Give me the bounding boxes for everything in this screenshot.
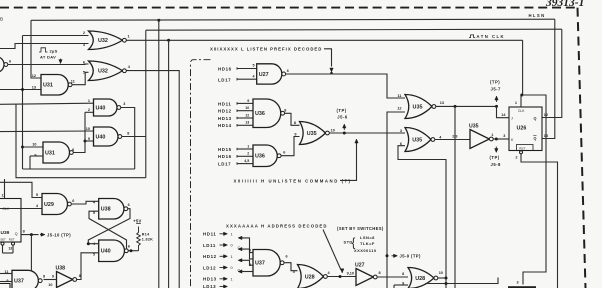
nand U33 (partial, cut at left edge) (0, 57, 4, 73)
svg-text:3: 3 (249, 263, 251, 267)
or-gate U35 pins 8,9 out 10 (NOR) (300, 122, 326, 145)
or-gate U35 pins 3,6 out 4 (NOR) (405, 128, 431, 152)
wire U26-Q net: y=30 run (146, 29, 562, 30)
wire U31-11 output to U32 pin5 (72, 72, 88, 84)
nand U38 pins 4,5 out 6 (latch top) (99, 199, 124, 220)
wire U37-6 to U28 input (284, 263, 297, 271)
svg-text:Q: Q (534, 137, 537, 141)
svg-text:9: 9 (34, 153, 36, 157)
svg-text:LD12: LD12 (203, 265, 216, 270)
wire U40 latch output node (128, 250, 138, 252)
svg-text:8: 8 (43, 274, 45, 278)
wire into U40 pin9 (85, 140, 94, 142)
svg-text:HD16: HD16 (218, 154, 232, 159)
svg-text:8: 8 (72, 148, 74, 152)
svg-text:(TP): (TP) (337, 108, 347, 113)
svg-text:5: 5 (249, 249, 251, 253)
svg-text:U36: U36 (255, 154, 265, 160)
section bracket dash-dot vertical (191, 60, 211, 288)
svg-text:+5V: +5V (133, 219, 141, 224)
svg-text:2,3: 2,3 (452, 134, 457, 138)
svg-text:8: 8 (402, 272, 404, 276)
resistor R14 1.82K (137, 227, 141, 251)
svg-text:1: 1 (88, 99, 90, 103)
svg-text:5: 5 (293, 270, 295, 274)
svg-text:LD17: LD17 (218, 162, 231, 167)
svg-text:13: 13 (8, 246, 12, 250)
wires below U39 (2, 245, 4, 253)
svg-text:6: 6 (283, 151, 285, 155)
svg-text:J5-7: J5-7 (491, 86, 502, 91)
svg-text:10: 10 (48, 283, 52, 287)
svg-text:9: 9 (6, 279, 8, 283)
svg-text:0: 0 (231, 244, 233, 248)
svg-text:10: 10 (32, 142, 36, 146)
svg-text:U28: U28 (305, 274, 315, 280)
svg-text:9: 9 (247, 99, 249, 103)
svg-text:3: 3 (123, 102, 125, 106)
wire U35-4 output to buffer U35 (435, 139, 470, 141)
svg-text:J5-9 (TP): J5-9 (TP) (400, 254, 421, 259)
inversion bubbles below U39 set/rst (1, 242, 4, 245)
svg-text:3: 3 (83, 43, 85, 47)
svg-text:3: 3 (517, 281, 519, 285)
svg-text:10: 10 (245, 106, 249, 110)
svg-text:5: 5 (253, 64, 255, 68)
svg-text:11: 11 (71, 80, 75, 84)
nand U40 pins 4,5 out 6 (latch bottom) (99, 240, 125, 262)
svg-text:U38: U38 (56, 265, 66, 271)
wire latch cross-coupling U40 out up to U38 pin5 (89, 211, 127, 248)
wire HLSN left corner down to U31 pin 12 (31, 20, 41, 78)
svg-text:LD13: LD13 (203, 284, 216, 288)
svg-text:6: 6 (287, 69, 289, 73)
wire ATN CLK corner down to U26 CLK pin 1 (521, 40, 523, 107)
svg-text:LSN=8: LSN=8 (360, 235, 375, 240)
svg-text:HD11: HD11 (218, 101, 231, 106)
svg-text:12: 12 (32, 74, 36, 78)
svg-text:10: 10 (331, 128, 335, 132)
flip-flop U26 (509, 107, 542, 151)
svg-text:X0IIIIII H UNLISTEN COMMAND: X0IIIIII H UNLISTEN COMMAND (7) (234, 178, 352, 183)
or-gate U28 pins 8,9 out 10 (NOR) (408, 268, 434, 288)
wire vertical x=16 down from pin1 feed (16, 104, 146, 177)
wire U40-8 output corner down (122, 136, 146, 138)
svg-text:U37: U37 (14, 279, 24, 285)
wire U36-6 to U35 pin 9 (281, 137, 299, 156)
svg-text:U32: U32 (98, 38, 108, 44)
svg-text:4: 4 (253, 74, 255, 78)
wire vertical from ATN junction down (168, 40, 170, 288)
svg-text:3: 3 (503, 134, 505, 138)
inverter U38 pins 9,10 out 8 (57, 272, 73, 288)
wire U32 pin2 feed (23, 35, 89, 37)
wire U28-10 output (438, 277, 446, 279)
test point J5-7 (496, 98, 498, 102)
wire U31-8 output up to U40 inputs (73, 112, 85, 152)
svg-text:13: 13 (440, 101, 444, 105)
wire U35 pin 12 feed from below (387, 112, 405, 288)
svg-text:U39: U39 (1, 230, 10, 236)
test point J5-8 (495, 147, 497, 151)
svg-text:5: 5 (36, 193, 38, 197)
test point J5-9 (386, 254, 389, 257)
svg-text:U35: U35 (413, 104, 423, 110)
svg-text:6: 6 (128, 203, 130, 207)
svg-text:2: 2 (515, 155, 517, 159)
svg-text:CLK: CLK (3, 207, 10, 211)
svg-text:1.82K: 1.82K (142, 238, 153, 242)
wire U35 pin 6 loop feed (398, 146, 446, 288)
svg-text:HD14: HD14 (218, 123, 232, 128)
nand U31 pins 10,9 out 8 (43, 142, 70, 163)
nand U27 pins 5,4 out 6 (257, 64, 282, 84)
svg-text:U35: U35 (469, 123, 479, 129)
buffer U27 pins 9,10 out 8 (356, 269, 373, 286)
wire U31 pin13 feed (0, 89, 41, 91)
svg-text:U38: U38 (101, 207, 111, 213)
svg-text:B: B (0, 17, 3, 22)
svg-text:2µS: 2µS (50, 49, 58, 54)
svg-text:1: 1 (128, 35, 130, 39)
wire U40 pin10 long feed (0, 130, 94, 133)
svg-text:1: 1 (231, 278, 233, 282)
svg-text:13: 13 (544, 134, 548, 138)
nand U29 pins 5,4 out 6 (42, 194, 68, 215)
junction on HLSN wire at x=160 (157, 19, 160, 22)
svg-text:HD11: HD11 (203, 232, 216, 237)
svg-text:12: 12 (245, 113, 249, 117)
border dashed right (578, 8, 586, 288)
svg-text:12: 12 (397, 107, 401, 111)
wire Q-net left corner down (145, 30, 147, 178)
wire ATN branch to bottom gate pin 3 (522, 95, 546, 285)
svg-text:1: 1 (515, 101, 517, 105)
wire y=182 feed to U29 pin5 (0, 182, 42, 197)
wire to U31 pin 10 (23, 146, 44, 148)
nand U31 pins 12,13 out 11 (41, 75, 68, 96)
arrow pointer to DAV wire (60, 59, 62, 62)
svg-text:10: 10 (439, 271, 443, 275)
svg-text:HD12: HD12 (203, 254, 217, 259)
wire vertical x=22.5 (22, 36, 24, 170)
wire ATN CLK net: U32 pin1 output run y=40 (126, 39, 522, 41)
wire U35 buffer out to U26 K pin 3 (493, 138, 509, 140)
wire U40-3 output corner down to y169 (121, 108, 135, 170)
wire U35-13 output to U26 J (436, 105, 497, 107)
svg-text:3: 3 (400, 129, 402, 133)
svg-text:U27: U27 (355, 262, 365, 268)
nand U36 pins 1,2,4,5 out 6 (253, 145, 277, 167)
svg-text:U35: U35 (307, 131, 317, 137)
svg-text:RST: RST (9, 238, 15, 242)
svg-text:U40: U40 (96, 105, 106, 111)
svg-text:HD12: HD12 (218, 109, 232, 114)
wire U37 out to U38 inverter in (44, 279, 57, 281)
svg-text:CLK: CLK (518, 109, 525, 113)
svg-text:4,5: 4,5 (244, 159, 249, 163)
svg-text:U29: U29 (44, 202, 54, 208)
wire HLSN net: y=20 run (31, 19, 555, 20)
wire U29 pin4 feed (0, 208, 42, 210)
junction ATN clock branch (520, 94, 523, 97)
wire U40 pin1 long feed (0, 103, 94, 104)
svg-text:6: 6 (286, 254, 288, 258)
wire U31-9 input stub (30, 155, 43, 157)
svg-text:ATN CLK: ATN CLK (477, 34, 506, 39)
or-gate U32 pin4 (NOR) (89, 61, 123, 81)
wires U37 bottom-left inputs (0, 273, 12, 275)
svg-text:U31: U31 (45, 150, 55, 156)
svg-text:J5-8: J5-8 (491, 162, 502, 167)
pointer from unlisten label up to wire (340, 143, 357, 180)
junction x22 to U31 pin10 (21, 146, 24, 149)
svg-text:(TP): (TP) (490, 155, 500, 160)
svg-text:1: 1 (231, 255, 233, 259)
nand U37 address decode out 6 (253, 250, 280, 277)
svg-text:U37: U37 (255, 261, 265, 267)
svg-text:8: 8 (379, 271, 381, 275)
svg-text:8: 8 (284, 108, 286, 112)
svg-text:J5-6: J5-6 (337, 115, 348, 120)
svg-text:8: 8 (23, 229, 25, 233)
svg-text:6: 6 (83, 61, 85, 65)
svg-text:6: 6 (72, 199, 74, 203)
wire branch down from U35-13 node (454, 106, 456, 288)
junction U31-8 branch at U40 pin9 (84, 140, 87, 143)
wire J feed into U26 pin 14 (497, 106, 510, 117)
svg-text:HD15: HD15 (218, 147, 232, 152)
svg-text:1: 1 (491, 133, 493, 137)
flip-flop U39 (cut at left edge) (0, 199, 21, 243)
svg-text:LD17: LD17 (218, 77, 231, 82)
svg-text:HD16: HD16 (218, 66, 232, 71)
svg-text:U26: U26 (517, 126, 527, 132)
wire U32 pin3 feed (0, 44, 89, 49)
svg-text:11: 11 (397, 94, 401, 98)
svg-text:10: 10 (86, 127, 90, 131)
svg-text:HLSN: HLSN (529, 13, 546, 18)
svg-text:1: 1 (231, 233, 233, 237)
svg-text:U40: U40 (96, 134, 106, 140)
wire U27-8 to U28 pin 8 (377, 276, 408, 278)
wire U35-10 output to U35 pin 3 (329, 132, 405, 134)
svg-text:8: 8 (294, 121, 296, 125)
svg-text:12: 12 (544, 113, 548, 117)
junction latch pin4 node (87, 242, 90, 245)
test point J5-6 (343, 132, 346, 135)
svg-text:9: 9 (52, 275, 54, 279)
wire U33 output to U32 pin6 (8, 63, 89, 66)
pointer from label to U27 output wire (324, 49, 332, 67)
svg-text:Q: Q (15, 232, 18, 236)
wire latch cross-coupling U38 out to U40 pin4 (88, 209, 130, 244)
svg-text:XXX00110: XXX00110 (354, 248, 377, 253)
nand U37 (bottom left, cut) (12, 270, 38, 288)
svg-text:8: 8 (127, 131, 129, 135)
svg-text:U40: U40 (101, 249, 111, 255)
wire U36-8 to U35 pin 8 (285, 113, 300, 125)
wire vertical from HLSN junction down (158, 20, 160, 288)
border dashed top (0, 7, 577, 9)
wire bus vertical x=177.5 from U32 pin4 (126, 71, 179, 288)
or-gate U28 out 4 (NOR, cut at bottom) (298, 265, 324, 288)
svg-text:13: 13 (245, 121, 249, 125)
svg-text:HD13: HD13 (203, 277, 217, 282)
svg-text:J5-10 (TP): J5-10 (TP) (47, 233, 71, 238)
svg-text:(SET BY SWITCHES): (SET BY SWITCHES) (337, 226, 384, 231)
svg-text:6: 6 (128, 245, 130, 249)
svg-text:R14: R14 (142, 233, 150, 237)
svg-text:6: 6 (9, 60, 11, 64)
svg-text:2: 2 (247, 152, 249, 156)
wire U38 inverter output up to latch pin5 (77, 253, 99, 280)
svg-text:2: 2 (88, 108, 90, 112)
svg-text:13: 13 (32, 86, 36, 90)
svg-text:AT DAV: AT DAV (40, 55, 56, 60)
svg-text:U36: U36 (255, 111, 265, 117)
svg-text:1: 1 (247, 144, 249, 148)
wire bottom y=283.5 run (425, 278, 498, 284)
or-gate U35 pins 11,12 out 13 (NOR) (405, 95, 432, 119)
svg-text:(TP): (TP) (490, 80, 500, 85)
nand U40 pins 10,9 out 8 (94, 127, 119, 146)
svg-text:U35: U35 (412, 137, 422, 143)
junction ATN net at x=167.5 (167, 39, 170, 42)
svg-text:SET: SET (0, 238, 6, 242)
partial gate bottom-left corner (0, 284, 10, 288)
svg-text:U28: U28 (415, 276, 425, 282)
svg-text:9: 9 (294, 132, 296, 136)
bottom gate (cut off) top edge (508, 286, 536, 288)
U26 RST box (517, 145, 534, 151)
svg-text:2: 2 (83, 31, 85, 35)
svg-text:HD13: HD13 (218, 116, 232, 121)
nand U40 pins 1,2 out 3 (94, 99, 118, 116)
svg-text:J: J (511, 117, 513, 121)
svg-text:Q: Q (534, 117, 537, 121)
wire into U40 pin2 (85, 111, 94, 113)
svg-text:U27: U27 (259, 72, 269, 78)
nand U36 pins 9,10,12,13 out 8 (253, 99, 281, 128)
or-gate U32 pin1 (NOR) (89, 31, 123, 50)
pointer diagonal from address label (323, 230, 341, 271)
wire U29 output to U38 pin4 (71, 201, 98, 204)
svg-text:U32: U32 (98, 69, 108, 75)
switch common hook arrows to U37 inputs (240, 237, 242, 239)
svg-text:TLK=F: TLK=F (360, 241, 375, 246)
wire from J5-10 node down (30, 235, 32, 271)
wire U27 output to U35 pin 11 (286, 74, 405, 98)
junction pin13/x22 crossing (21, 88, 24, 91)
buffer U35 pins 2,3 out 1 (470, 130, 489, 149)
svg-text:X0IXXXXX L LISTEN PREFIX D: X0IXXXXX L LISTEN PREFIX DECODED (210, 47, 322, 52)
label 2uS AT DAV with pulse symbol (39, 48, 48, 52)
svg-text:U31: U31 (43, 83, 53, 89)
svg-text:LD11: LD11 (203, 243, 216, 248)
svg-text:RST: RST (519, 146, 525, 150)
svg-text:9,10: 9,10 (347, 272, 354, 276)
svg-text:0: 0 (231, 266, 233, 270)
svg-text:XXXAAAAA H ADDRESS DECODED: XXXAAAAA H ADDRESS DECODED (226, 223, 328, 228)
wire Q-net right corner down to U26 Q (542, 29, 562, 117)
svg-text:9: 9 (88, 137, 90, 141)
wire y=169 run (23, 168, 135, 170)
U26 reset pin 2 (520, 151, 523, 154)
